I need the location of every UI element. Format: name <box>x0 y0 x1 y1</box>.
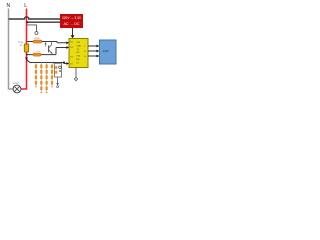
header wire 2 <box>40 63 42 94</box>
ESP module (blue) <box>100 40 117 64</box>
wire converter to MCU <box>72 28 74 36</box>
svg-text:220V → 3.3V: 220V → 3.3V <box>62 16 82 20</box>
node at bus end <box>63 61 65 63</box>
zero-cross bus wire <box>27 60 64 63</box>
junction on L <box>26 21 28 23</box>
wire to pin D5 <box>64 63 66 64</box>
svg-text:Fuse: Fuse <box>18 42 24 44</box>
wires MCU to ESP with arrows <box>88 46 97 56</box>
resistor R2 <box>27 48 66 55</box>
opto sub-circuit box <box>55 63 62 77</box>
svg-text:1A: 1A <box>20 44 23 47</box>
junction on bus <box>53 62 55 64</box>
svg-text:VIN: VIN <box>77 42 81 44</box>
wire N rail <box>9 9 14 90</box>
svg-text:L: L <box>24 3 27 9</box>
svg-text:Load: Load <box>13 81 19 85</box>
svg-text:N: N <box>7 3 11 9</box>
resistor R1 <box>27 41 57 43</box>
wire below box with arrow and node <box>57 77 59 83</box>
wire A: N to converter with hop over L <box>9 17 61 19</box>
wire B: L to converter <box>27 21 60 23</box>
svg-text:ESP: ESP <box>103 49 109 53</box>
header wire 3 <box>46 63 48 94</box>
transistor Q1 <box>45 42 47 44</box>
arrows into MCU left pins <box>66 41 69 44</box>
svg-text:EN: EN <box>77 59 80 61</box>
svg-text:GND: GND <box>77 45 82 47</box>
terminal node <box>35 32 38 35</box>
wire L rail <box>21 9 27 90</box>
wire C with terminal circle <box>27 25 37 32</box>
header wire 1 <box>35 63 37 88</box>
junction arrow on L rail <box>25 57 28 60</box>
svg-text:AC → DC: AC → DC <box>64 22 81 26</box>
antenna port below MCU <box>75 68 77 78</box>
wire step to pin1 <box>57 42 66 43</box>
AC-DC converter module <box>60 14 83 28</box>
header wire 4 <box>51 63 53 88</box>
MCU module U1 (yellow) <box>69 39 88 68</box>
MCU pin labels <box>70 41 86 65</box>
